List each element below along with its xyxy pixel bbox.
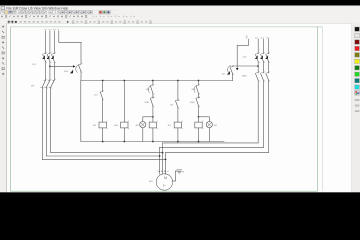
app chrome background — [0, 6, 360, 24]
wire motor feed right 2 — [160, 146, 264, 148]
label S1 — [94, 95, 97, 97]
wire lamp2 bottom — [208, 128, 210, 142]
canvas white — [7, 23, 352, 192]
label KM2 — [242, 76, 247, 78]
wire Q1 out 3 — [53, 62, 55, 81]
switch S0 — [79, 63, 83, 73]
left tool strip — [0, 23, 6, 192]
breaker Q1 pole 1 — [42, 52, 47, 63]
wire branch5 top — [198, 81, 200, 86]
svg-text:4H1: 4H1 — [136, 125, 139, 127]
node L3 — [53, 29, 56, 31]
wire branch1 mid — [102, 99, 104, 122]
contactor KM1 pole 1 — [41, 79, 47, 89]
wire Q1 out 2 — [49, 62, 51, 81]
actuator arc S4 — [227, 65, 230, 72]
label KM1 coil — [93, 125, 96, 127]
label H2 — [214, 125, 217, 127]
wire branch4 top — [177, 81, 179, 101]
svg-text:w2: w2 — [167, 171, 169, 173]
node control feed — [246, 36, 249, 38]
tap arrow — [73, 65, 76, 67]
wire right feed — [237, 39, 248, 68]
label tap — [64, 71, 68, 73]
toolbar row 1 — [1, 11, 4, 14]
svg-text:4KM1: 4KM1 — [190, 102, 195, 104]
contact S2 — [150, 84, 154, 95]
svg-text:4S3: 4S3 — [191, 89, 194, 91]
label KM1 aux — [190, 102, 195, 104]
svg-text:4F2: 4F2 — [170, 104, 173, 106]
wire L2 drop — [49, 31, 51, 54]
coil KM4 — [195, 121, 203, 130]
actuator arc S0 — [76, 65, 79, 73]
svg-text:3~: 3~ — [163, 184, 167, 188]
node 2L3 — [261, 37, 264, 39]
svg-text:4KM2: 4KM2 — [242, 76, 247, 78]
node L2 — [48, 29, 51, 31]
label PE — [182, 171, 184, 173]
label S2 — [146, 89, 149, 91]
node N — [57, 29, 59, 31]
contact KM2 aux — [150, 97, 154, 108]
junction bottom branch1 — [102, 141, 104, 143]
contactor KM1 pole 2 — [45, 79, 52, 89]
wire lamp1 arm — [143, 117, 153, 122]
wire L1 drop — [45, 31, 47, 54]
wire N drop — [59, 31, 81, 64]
coil KM3 — [174, 121, 182, 130]
wire motor stub W — [165, 152, 167, 174]
right colorbar strip — [352, 23, 360, 192]
label S4 — [222, 74, 225, 76]
wire S4 to rail — [232, 74, 234, 81]
wire Q2 out 1 — [257, 62, 259, 73]
bottom letterbox — [0, 192, 360, 202]
junction stub V — [162, 152, 164, 154]
contact S1 — [100, 90, 104, 100]
label KM2 aux — [144, 102, 149, 104]
wire motor feed right 3 — [166, 151, 269, 153]
junction bottom branch4 — [177, 141, 179, 143]
wire branch5 bottom — [198, 128, 200, 142]
contact F2 aux — [175, 99, 179, 109]
svg-text:4KM2: 4KM2 — [144, 102, 149, 104]
actuator arc S2 — [148, 86, 151, 93]
breaker Q2 pole 3 — [265, 52, 270, 63]
svg-text:4S2: 4S2 — [146, 89, 149, 91]
node 2L2 — [255, 37, 258, 39]
wire bottom rail — [81, 141, 224, 143]
junction bottom branch2 — [123, 141, 125, 143]
svg-text:M: M — [164, 176, 167, 180]
toolbar row 3 — [8, 21, 11, 24]
coil KM2 — [149, 121, 157, 130]
wire KM2 out 3 — [268, 80, 270, 152]
window menu icon — [1, 7, 5, 10]
svg-text:4H2: 4H2 — [214, 125, 217, 127]
wire S4 tap — [233, 65, 258, 67]
coil KM1 — [99, 121, 107, 130]
svg-text:4KM: 4KM — [64, 71, 68, 73]
ground PE — [177, 170, 182, 173]
wire motor stub V — [162, 143, 164, 174]
svg-text:4K1: 4K1 — [93, 125, 96, 127]
lamp H2 — [206, 122, 212, 128]
label F1 — [31, 85, 35, 87]
junction bottom branch3 — [152, 141, 154, 143]
contactor KM2 pole 3 — [266, 71, 270, 81]
lamp H1 — [140, 122, 146, 128]
terminal ticks U V W — [157, 170, 169, 173]
feed end arrow — [236, 68, 239, 71]
contactor KM1 pole 3 — [49, 79, 56, 89]
svg-text:4S1: 4S1 — [94, 95, 97, 97]
wire branch3 bottom — [152, 128, 154, 142]
label Q1 — [32, 64, 37, 66]
label Q2 — [243, 56, 248, 58]
wire branch3 mid — [152, 106, 154, 122]
wire branch1 bottom — [102, 128, 104, 142]
wire R1 drop — [257, 39, 259, 54]
contact KM1 aux — [196, 97, 200, 108]
wire KM1 out 2 — [45, 87, 47, 156]
junction rail S2 — [152, 80, 154, 82]
label F2 aux — [170, 104, 173, 106]
wire top rail — [81, 80, 233, 82]
breaker Q1 pole 3 — [51, 52, 56, 63]
junction lamp1 tap — [152, 116, 154, 118]
label S3 — [191, 89, 194, 91]
wire branch4 bottom — [177, 128, 179, 142]
junction rail KA1 — [123, 80, 125, 82]
label H1 — [136, 125, 139, 127]
colour palette — [355, 27, 360, 31]
wire motor feed left 2 — [46, 155, 159, 157]
wire lamp1 bottom — [142, 128, 144, 142]
junction tap on L2 — [49, 66, 51, 68]
breaker Q2 pole 1 — [255, 52, 260, 63]
wire motor feed left 1 — [51, 152, 163, 154]
junction stub U — [159, 155, 161, 157]
svg-text:4K3: 4K3 — [168, 125, 171, 127]
breaker Q2 pole 2 — [260, 52, 265, 63]
wire branch2 top — [123, 81, 125, 123]
wire KM2 out 2 — [262, 80, 264, 147]
node L1 — [44, 29, 47, 31]
contactor KM2 pole 1 — [255, 71, 259, 81]
wire L3 drop — [53, 31, 55, 54]
svg-text:4S4: 4S4 — [222, 74, 225, 76]
contactor KM2 pole 2 — [261, 71, 265, 81]
label KM3 coil — [168, 125, 171, 127]
actuator arc S3 — [194, 86, 197, 93]
wire motor feed left 3 — [42, 158, 165, 160]
junction rail S1 — [102, 80, 104, 82]
switch S4 — [230, 65, 234, 75]
actuator arrow S0 — [70, 70, 73, 74]
coil KA1 — [121, 121, 129, 130]
wire branch3 link — [152, 93, 154, 98]
wire branch2 bottom — [123, 128, 125, 142]
wire control tap — [50, 65, 73, 67]
junction bottom branch5 — [198, 141, 200, 143]
wire branch5 mid — [198, 106, 200, 122]
junction rail S3 — [198, 80, 200, 82]
wire R3 drop — [268, 39, 270, 54]
wire KM1 out 1 — [41, 87, 43, 159]
wire branch3 top — [152, 81, 154, 86]
wire Q2 out 2 — [262, 62, 264, 73]
wire Q2 out 3 — [268, 62, 270, 73]
wire PE — [172, 171, 177, 181]
junction lamp2 tap — [198, 116, 200, 118]
svg-text:PE: PE — [182, 171, 184, 173]
wire Q1 out 1 — [45, 62, 47, 81]
label KA1 coil — [114, 124, 118, 127]
wire branch4 mid — [177, 107, 179, 122]
wire left side drop — [80, 81, 82, 142]
actuator arrow S4 — [227, 71, 230, 75]
wire motor feed right 1 — [163, 142, 259, 144]
contact S3 — [196, 84, 200, 95]
junction stub W — [165, 159, 167, 161]
wire S0 to rail — [80, 72, 82, 81]
junction rail F2 — [177, 80, 179, 82]
wire motor stub U — [159, 147, 161, 174]
wire KM1 out 3 — [50, 87, 52, 152]
label M1 — [149, 181, 154, 183]
wire KM2 out 1 — [257, 80, 259, 143]
node 2L1 — [246, 37, 248, 39]
wire branch5 link — [198, 93, 200, 98]
junction on R1 — [257, 65, 259, 67]
breaker Q1 pole 2 — [47, 52, 52, 63]
svg-text:2L1: 2L1 — [255, 37, 258, 39]
wire R2 drop — [262, 39, 264, 54]
node 2N — [266, 37, 269, 39]
left vertical toolbar — [2, 26, 4, 28]
wire lamp2 arm — [199, 117, 210, 122]
motor M1 — [156, 174, 172, 190]
toolbar row 2 — [1, 15, 3, 17]
wire branch1 top — [102, 81, 104, 92]
